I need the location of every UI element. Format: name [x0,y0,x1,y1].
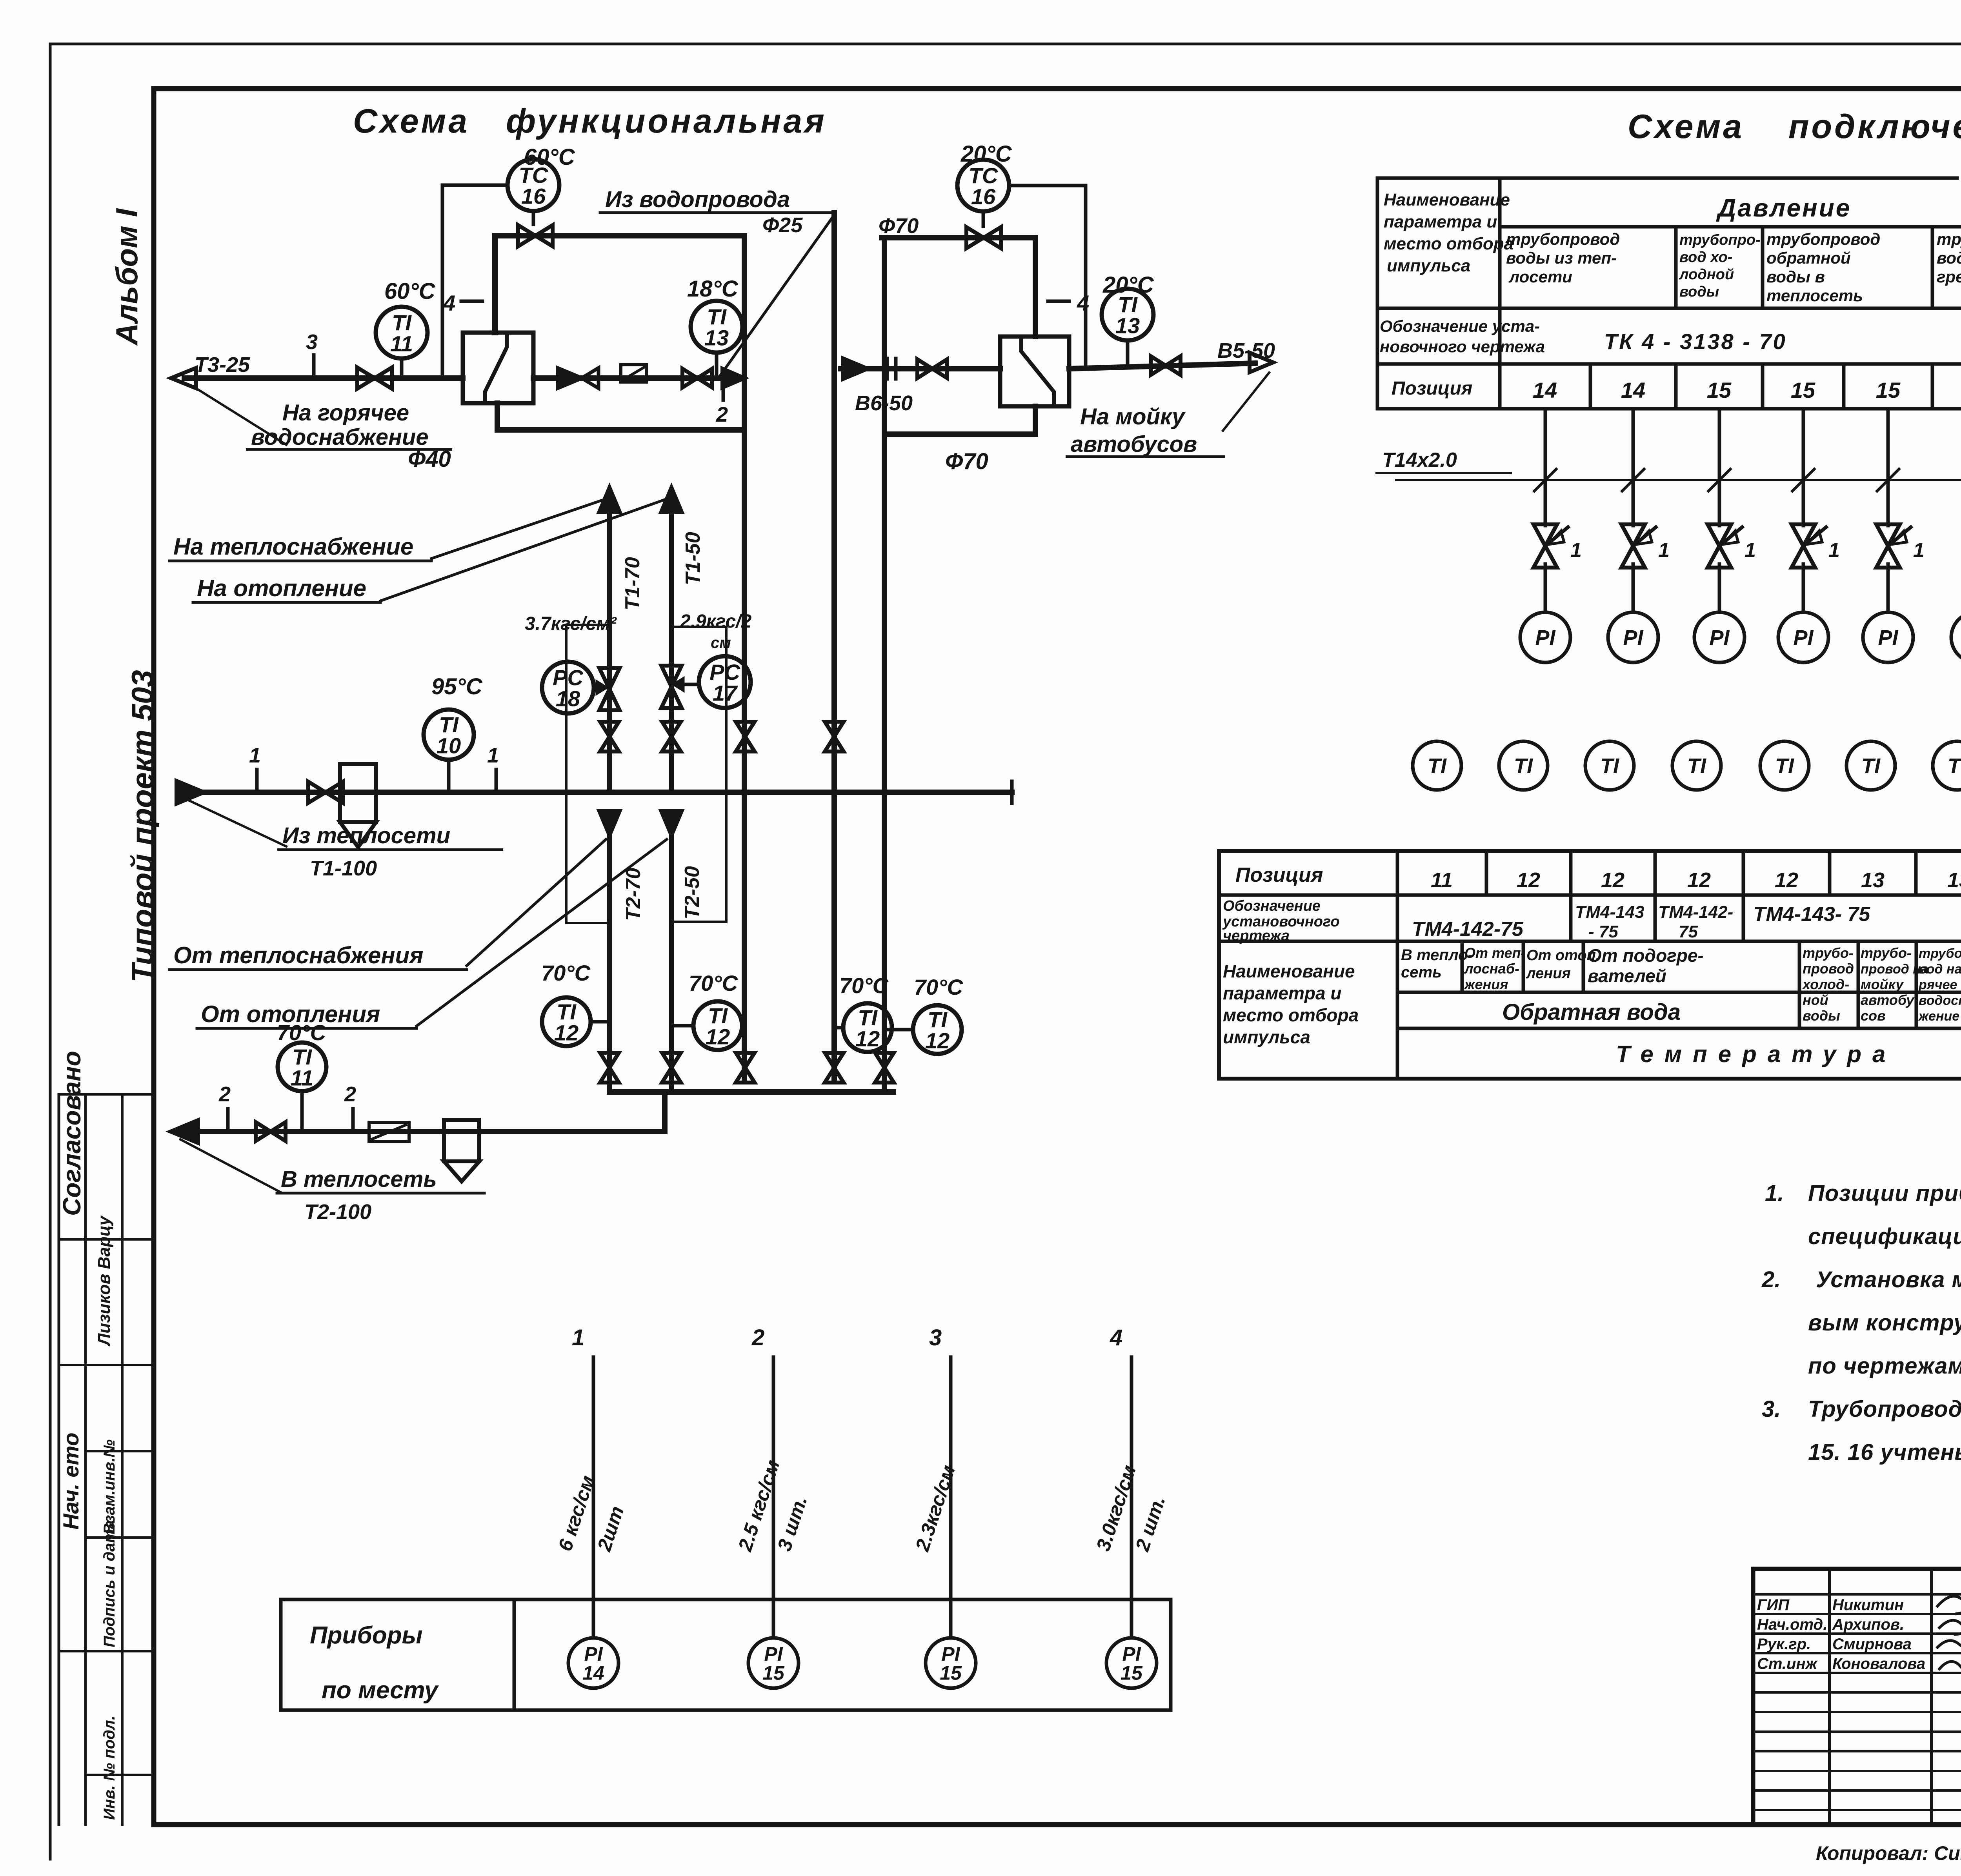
node 3 tick [312,355,316,378]
shutoff valve with handle pos1 no5 [1876,524,1900,568]
svg-text:4: 4 [443,291,455,315]
leader ot teplosnabzheniya [467,839,606,966]
valve before W2 [917,359,947,378]
svg-text:РI: РI [1878,626,1898,650]
svg-text:12: 12 [554,1021,578,1045]
loop1 right vertical (GVS circulation V3) [742,236,747,430]
inlet pipe to W2 with fitting [841,366,1000,371]
sludge trap symbol (small rect with diagonal) [621,365,647,382]
pressure regulator PC18 impulse loop [566,625,609,923]
svg-text:функциональная: функциональная [506,102,827,140]
svg-text:Ф70: Ф70 [945,449,988,474]
svg-text:1: 1 [1570,539,1582,562]
svg-text:Никитин: Никитин [1832,1596,1904,1614]
svg-text:автобу-: автобу- [1861,992,1919,1008]
instrument PI manometer no2 [1608,612,1658,662]
instrument PI manometer no6 [1951,612,1961,662]
svg-text:РI: РI [1535,626,1555,650]
mud filter on supply [340,764,376,822]
node 1 tick second [495,770,498,792]
instrument PI manometer no1 [1520,612,1570,662]
capillary from TC16 right to outlet pipe [1009,186,1086,369]
heat exchanger W2 (bus wash) [1000,337,1069,406]
svg-text:Позиция: Позиция [1235,864,1323,886]
svg-text:Давление: Давление [1716,194,1851,222]
svg-text:14: 14 [1621,378,1645,402]
svg-text:Коновалова: Коновалова [1832,1655,1925,1672]
instrument PI 14 local gauge [568,1638,618,1688]
svg-text:20°С: 20°С [1102,272,1154,298]
svg-text:Рук.гр.: Рук.гр. [1757,1636,1811,1653]
instrument TI 11 return [278,1043,326,1091]
svg-text:16: 16 [521,184,546,209]
svg-text:2: 2 [218,1083,231,1106]
svg-text:вод хо-: вод хо- [1679,249,1732,266]
svg-text:60°С: 60°С [384,278,436,304]
instrument TI thermometer no2 [1499,741,1548,790]
instrument PI manometer no4 [1778,612,1828,662]
svg-text:Обозначение уста-: Обозначение уста- [1380,317,1540,335]
instrument TI 11 thermometer [376,307,427,358]
node 2 tick below TI13 [722,378,725,400]
impulse riser 5 from pressure table [1886,409,1890,526]
loop2 left vertical (V5) [882,238,887,792]
svg-text:трубопро.: трубопро. [1919,946,1961,961]
valve on bus wash outlet [1151,356,1181,375]
leader to bus wash label [1223,373,1269,431]
svg-text:14: 14 [582,1662,604,1684]
instrument PC 18 [542,662,594,713]
svg-text:13: 13 [1947,868,1961,892]
svg-text:Лизиков Варцу: Лизиков Варцу [95,1215,114,1346]
svg-text:Согласовано: Согласовано [58,1051,86,1216]
svg-text:18: 18 [556,686,580,711]
impulse riser 3 from pressure table [1718,409,1721,526]
svg-text:На отопление: На отопление [197,575,366,601]
svg-text:2: 2 [716,403,728,426]
svg-text:12: 12 [925,1028,950,1053]
svg-text:16: 16 [971,184,996,209]
svg-text:Типовой проект 503: Типовой проект 503 [125,670,160,983]
instrument TI 13 (20C bus wash) [1102,289,1153,340]
node 2 tick [226,1109,230,1132]
svg-text:параметра и: параметра и [1384,212,1497,231]
local instruments enclosure [281,1598,1171,1601]
svg-text:Т3-25: Т3-25 [195,353,250,377]
svg-text:Ф70: Ф70 [879,214,919,238]
return riser T2-50 down arrow [661,811,682,835]
naimenovanie row cells [1461,941,1464,992]
pipe from exchanger W1 to water heating [533,375,744,381]
svg-text:12: 12 [1775,868,1798,892]
svg-text:2: 2 [344,1083,356,1106]
svg-text:провод: провод [1803,961,1854,977]
check valve on return (rect with diagonal) [369,1123,409,1141]
svg-text:10: 10 [437,733,461,758]
shutoff valve with handle pos1 no3 [1708,524,1731,568]
leader na teplosnabzhenie [431,499,606,559]
impulse riser 2 from pressure table [1632,409,1635,526]
valve on return [256,1122,286,1141]
svg-text:В теплосеть: В теплосеть [281,1166,437,1192]
svg-text:Из теплосети: Из теплосети [282,823,450,848]
svg-text:От подогре-: От подогре- [1588,945,1704,966]
svg-text:чертежа: чертежа [1223,928,1290,944]
svg-text:12: 12 [855,1026,880,1051]
cold water vertical F25 (V4) [831,213,837,1081]
instrument TI thermometer no6 [1846,741,1895,790]
svg-text:вым конструкциям ( ТК и ТМ: вым конструкциям ( ТК и ТМ ) и выполняет… [1808,1310,1961,1336]
diagonal from vodoprovod corner to junction [720,215,834,376]
svg-text:Т1-100: Т1-100 [310,857,377,880]
instrument PI 15 local gauge [1106,1638,1157,1688]
loop1 left vertical from top pipe into exchanger [492,236,498,333]
pressure table outer border [1377,177,1922,180]
heat exchanger W1 (GVS) [463,333,533,403]
svg-text:11: 11 [1431,868,1453,892]
svg-text:ТМ4-143- 75: ТМ4-143- 75 [1753,903,1870,926]
svg-text:Позиции приборов соответству: Позиции приборов соответствуют позициям … [1808,1181,1961,1206]
svg-text:Т2-70: Т2-70 [622,868,645,921]
impulse line 1 to local gauge [592,1357,595,1638]
svg-text:водоснаб-: водоснаб- [1919,993,1961,1008]
valve under TC16 (loop1) [518,225,553,246]
svg-text:воды в: воды в [1766,267,1825,286]
svg-text:воды: воды [1679,284,1719,300]
svg-text:трубопровод: трубопровод [1937,230,1961,248]
svg-text:лосети: лосети [1508,267,1572,286]
instrument TI 12 no4 [913,1005,962,1054]
pressure table header column [1498,178,1502,409]
svg-text:1: 1 [1745,539,1756,562]
svg-text:Альбом I: Альбом I [109,208,144,346]
shutoff valve on cold water V4 [825,722,844,751]
svg-text:- 75: - 75 [1588,922,1618,941]
svg-text:70°С: 70°С [839,973,889,998]
valve on supply [308,782,343,803]
arrow outlet to hot water supply [171,368,196,388]
svg-text:15: 15 [762,1662,785,1684]
svg-text:Установка местных приборов: Установка местных приборов принята по ти… [1816,1267,1961,1292]
svg-text:На горячее: На горячее [282,400,409,426]
instrument TI thermometer no3 [1585,741,1634,790]
instrument TI thermometer no1 [1413,741,1461,790]
svg-text:15: 15 [1876,378,1901,402]
svg-text:воды к подо-: воды к подо- [1937,249,1961,267]
shutoff valve on GVS circulation V3 [736,722,755,751]
svg-text:Приборы: Приборы [310,1622,422,1649]
svg-text:1.: 1. [1765,1181,1784,1206]
arrow from heating network [176,781,204,804]
svg-text:сеть: сеть [1401,964,1442,981]
svg-text:75: 75 [1679,922,1698,941]
svg-text:12: 12 [706,1024,730,1049]
svg-text:Температура: Температура [1616,1041,1896,1067]
leader ot otopleniya [417,839,667,1026]
svg-text:трубо-: трубо- [1861,945,1912,961]
svg-text:мойку: мойку [1861,976,1904,992]
impulse line 4 to local gauge [1130,1357,1133,1638]
svg-text:гревателям: гревателям [1937,267,1961,286]
svg-text:вод на го-: вод на го- [1919,962,1961,977]
impulse riser 1 from pressure table [1544,409,1547,526]
svg-text:На мойку: На мойку [1080,404,1186,429]
pressure table row lines [1500,225,1961,229]
svg-text:1: 1 [572,1325,584,1350]
svg-text:ТК 4 - 3138 - 70: ТК 4 - 3138 - 70 [1604,329,1787,354]
loop1 bottom pipe F40 [497,427,744,433]
svg-text:спецификации оборудавания с: спецификации оборудавания со. [1808,1224,1961,1249]
svg-text:Т2-100: Т2-100 [304,1200,371,1224]
regulator valve on T1-50 [661,666,682,708]
svg-text:20°С: 20°С [960,141,1012,167]
svg-text:Архипов.: Архипов. [1832,1616,1904,1633]
svg-text:Смирнова: Смирнова [1832,1636,1912,1653]
svg-text:Взам.инв.№: Взам.инв.№ [101,1439,118,1534]
svg-text:теплосеть: теплосеть [1766,286,1863,305]
supply riser T1-70 with up arrow [599,488,620,512]
impulse line 3 to local gauge [949,1357,953,1638]
svg-text:11: 11 [390,331,413,356]
svg-text:Т14х2.0: Т14х2.0 [1382,449,1457,471]
svg-text:воды: воды [1803,1008,1840,1024]
signature scribbles [1937,1596,1961,1616]
svg-text:70°С: 70°С [689,971,739,995]
svg-text:1: 1 [487,744,499,767]
svg-text:ТI: ТI [1600,754,1619,778]
svg-text:Наименование: Наименование [1223,961,1355,981]
svg-text:В6-50: В6-50 [855,391,913,415]
leader iz teploseti [188,800,286,846]
svg-text:15: 15 [1707,378,1732,402]
svg-text:Обозначение: Обозначение [1223,898,1321,914]
svg-text:12: 12 [1601,868,1624,892]
svg-text:Позиция: Позиция [1392,378,1472,399]
svg-text:Инв. № подл.: Инв. № подл. [101,1716,118,1820]
impulse line 2 to local gauge [772,1357,775,1638]
svg-text:1: 1 [1913,539,1925,562]
svg-text:новочного чертежа: новочного чертежа [1380,337,1545,356]
svg-text:От теплоснабжения: От теплоснабжения [173,942,424,968]
svg-text:13: 13 [1861,868,1885,892]
svg-text:Наименование: Наименование [1384,190,1510,209]
leader na otoplenie [380,499,667,601]
regulator valve on T1-70 [599,668,620,710]
svg-text:2.9кгс/2: 2.9кгс/2 [680,611,752,632]
instrument TI 12 no1 [542,997,591,1046]
svg-text:воды из теп-: воды из теп- [1506,249,1617,267]
svg-text:провод на: провод на [1861,962,1928,977]
svg-text:ТМ4-142-75: ТМ4-142-75 [1412,918,1524,941]
svg-text:холод-: холод- [1802,976,1849,992]
svg-text:Схема: Схема [1628,108,1744,146]
temperature table row lines [1219,893,1961,897]
svg-text:импульса: импульса [1387,256,1470,275]
svg-text:рячее: рячее [1918,977,1957,992]
instrument TC 16 (loop1) [508,159,559,211]
svg-text:по чертежам марки АСС и Т: по чертежам марки АСС и ТМ. [1808,1353,1961,1379]
supply riser T1-50 with up arrow [661,488,682,512]
impulse riser 4 from pressure table [1802,409,1805,526]
instrument TI 13 (18C) [691,301,742,353]
check valve on W1 outlet [558,368,582,388]
instrument TI thermometer no4 [1672,741,1721,790]
svg-text:ТI: ТI [1948,754,1961,778]
pressure sub-columns [1674,227,1678,308]
oboznachenie row cells [1569,895,1573,941]
svg-text:трубопровод: трубопровод [1506,230,1620,248]
temperature table header column [1396,851,1399,1079]
shutoff valve with handle pos1 no1 [1534,524,1557,568]
svg-text:Ф25: Ф25 [762,213,803,237]
label v teploset [180,1139,281,1192]
margin table bottom-left [59,1093,154,1096]
arrow to bus wash [1250,353,1273,372]
svg-text:Трубопроводная арматура поз.: Трубопроводная арматура поз.1. и регулят… [1808,1396,1961,1422]
valve on T3-25 line [357,368,392,389]
svg-text:лодной: лодной [1679,266,1734,283]
instrument TI 12 no3 [843,1003,892,1052]
leader to hot water label [196,388,286,445]
capillary from TC16 to supply pipe [442,185,508,378]
svg-text:РI: РI [1709,626,1730,650]
svg-text:15: 15 [1121,1662,1143,1684]
instrument PI 15 local gauge [748,1638,799,1688]
svg-text:Из водопровода: Из водопровода [605,187,790,212]
svg-text:вателей: вателей [1588,966,1666,986]
svg-text:Т2-50: Т2-50 [681,866,704,919]
outlet pipe from W2 to bus wash [1069,363,1255,369]
svg-text:4: 4 [1110,1325,1122,1350]
svg-text:В тепло-: В тепло- [1401,946,1473,964]
mud filter on return [444,1120,479,1161]
svg-text:18°С: 18°С [687,276,739,302]
svg-text:жение: жение [1918,1009,1959,1024]
svg-text:лоснаб-: лоснаб- [1464,961,1519,977]
svg-text:РI: РI [1623,626,1643,650]
svg-text:95°С: 95°С [431,674,483,699]
svg-text:1: 1 [1828,539,1840,562]
svg-text:ТI: ТI [1775,754,1794,778]
return collector [609,1089,893,1095]
svg-text:Нач.отд.: Нач.отд. [1757,1616,1827,1633]
instrument TI 12 no2 [693,1001,742,1050]
valve under TC16 (loop2) [966,227,1001,248]
svg-text:15: 15 [1791,378,1815,402]
instrument PI manometer no5 [1863,612,1913,662]
instrument PI manometer no3 [1694,612,1745,662]
return riser T2-70 down arrow [599,811,620,835]
svg-text:15: 15 [940,1662,962,1684]
svg-text:ГИП: ГИП [1757,1596,1790,1614]
label 4 tick (loop2) [1048,300,1069,303]
svg-text:ления: ления [1526,965,1571,982]
svg-text:От теп-: От теп- [1464,945,1526,961]
svg-text:ТМ4-143: ТМ4-143 [1575,903,1644,922]
svg-text:1: 1 [1658,539,1670,562]
svg-text:2.: 2. [1761,1267,1781,1292]
svg-text:ТI: ТI [1861,754,1881,778]
supply pipe from heating network T1-100 [184,790,1012,795]
svg-text:70°С: 70°С [541,961,591,985]
svg-text:место отбора: место отбора [1223,1005,1359,1025]
svg-text:параметра и: параметра и [1223,983,1341,1003]
svg-text:трубопро-: трубопро- [1679,232,1761,248]
compensator ticks [886,358,889,379]
svg-text:Ст.инж: Ст.инж [1757,1655,1818,1672]
svg-text:подключений: подключений [1788,108,1961,146]
main drawing frame [154,86,1961,91]
loop2 bottom pipe F70 [884,431,1035,437]
svg-text:Обратная вода: Обратная вода [1502,999,1681,1025]
svg-text:3.7кгс/см²: 3.7кгс/см² [525,613,617,634]
loop2 top pipe F70 [882,235,1035,240]
svg-text:13: 13 [1115,313,1140,338]
svg-text:4: 4 [1077,291,1089,315]
svg-text:11: 11 [291,1066,313,1090]
svg-text:70°С: 70°С [277,1020,327,1045]
svg-text:Схема: Схема [353,102,469,140]
svg-text:12: 12 [1517,868,1540,892]
instrument PC 17 [699,656,751,708]
svg-text:трубопровод: трубопровод [1766,230,1880,248]
valve before TI13 [682,369,712,388]
svg-text:см: см [711,634,731,651]
instrument TI thermometer no7 [1933,741,1961,790]
temperature table outer border [1219,851,1961,1079]
instrument TI thermometer no5 [1760,741,1809,790]
pressure regulator PC17 impulse loop [671,627,726,922]
svg-text:обратной: обратной [1766,249,1851,267]
svg-text:1: 1 [249,744,261,767]
label 4 with tick (loop1) [461,300,482,303]
bottom shutoff valves on return risers [600,1053,619,1083]
instrument TC 16 (loop2) [957,160,1009,211]
shutoff valve on T1-70 [600,722,619,751]
svg-text:РI: РI [1793,626,1814,650]
svg-text:2: 2 [751,1325,764,1350]
svg-text:Копировал: Синтеза: Копировал: Синтеза [1816,1842,1961,1864]
svg-text:трубо-: трубо- [1803,945,1854,961]
svg-text:жения: жения [1464,976,1508,992]
pipe T3-25 hot water supply line [184,375,463,381]
svg-text:70°С: 70°С [914,975,964,999]
node 1 tick [255,770,259,792]
return pipe to heating network T2-100 [184,1129,665,1134]
svg-text:ТМ4-142-: ТМ4-142- [1658,903,1733,922]
svg-text:место отбора: место отбора [1384,234,1513,253]
svg-text:автобусов: автобусов [1071,431,1197,457]
svg-text:12: 12 [1687,868,1711,892]
svg-text:сов: сов [1861,1008,1886,1024]
svg-text:по месту: по месту [322,1677,439,1704]
svg-text:Ф40: Ф40 [408,446,451,472]
svg-text:ТI: ТI [1687,754,1706,778]
svg-text:ТI: ТI [1514,754,1533,778]
svg-text:ТI: ТI [1428,754,1447,778]
arrow to heating network [171,1120,198,1143]
svg-text:14: 14 [1533,378,1557,402]
svg-text:Нач. ето: Нач. ето [58,1432,83,1530]
svg-text:3: 3 [306,330,318,354]
instrument PI 15 local gauge [926,1638,976,1688]
shutoff valve on T1-50 [662,722,681,751]
svg-text:17: 17 [713,681,738,706]
inlet arrow into loop1 riser [722,369,744,388]
svg-text:ной: ной [1803,992,1828,1008]
node 2 tick second [351,1109,355,1132]
svg-text:3: 3 [929,1325,942,1350]
